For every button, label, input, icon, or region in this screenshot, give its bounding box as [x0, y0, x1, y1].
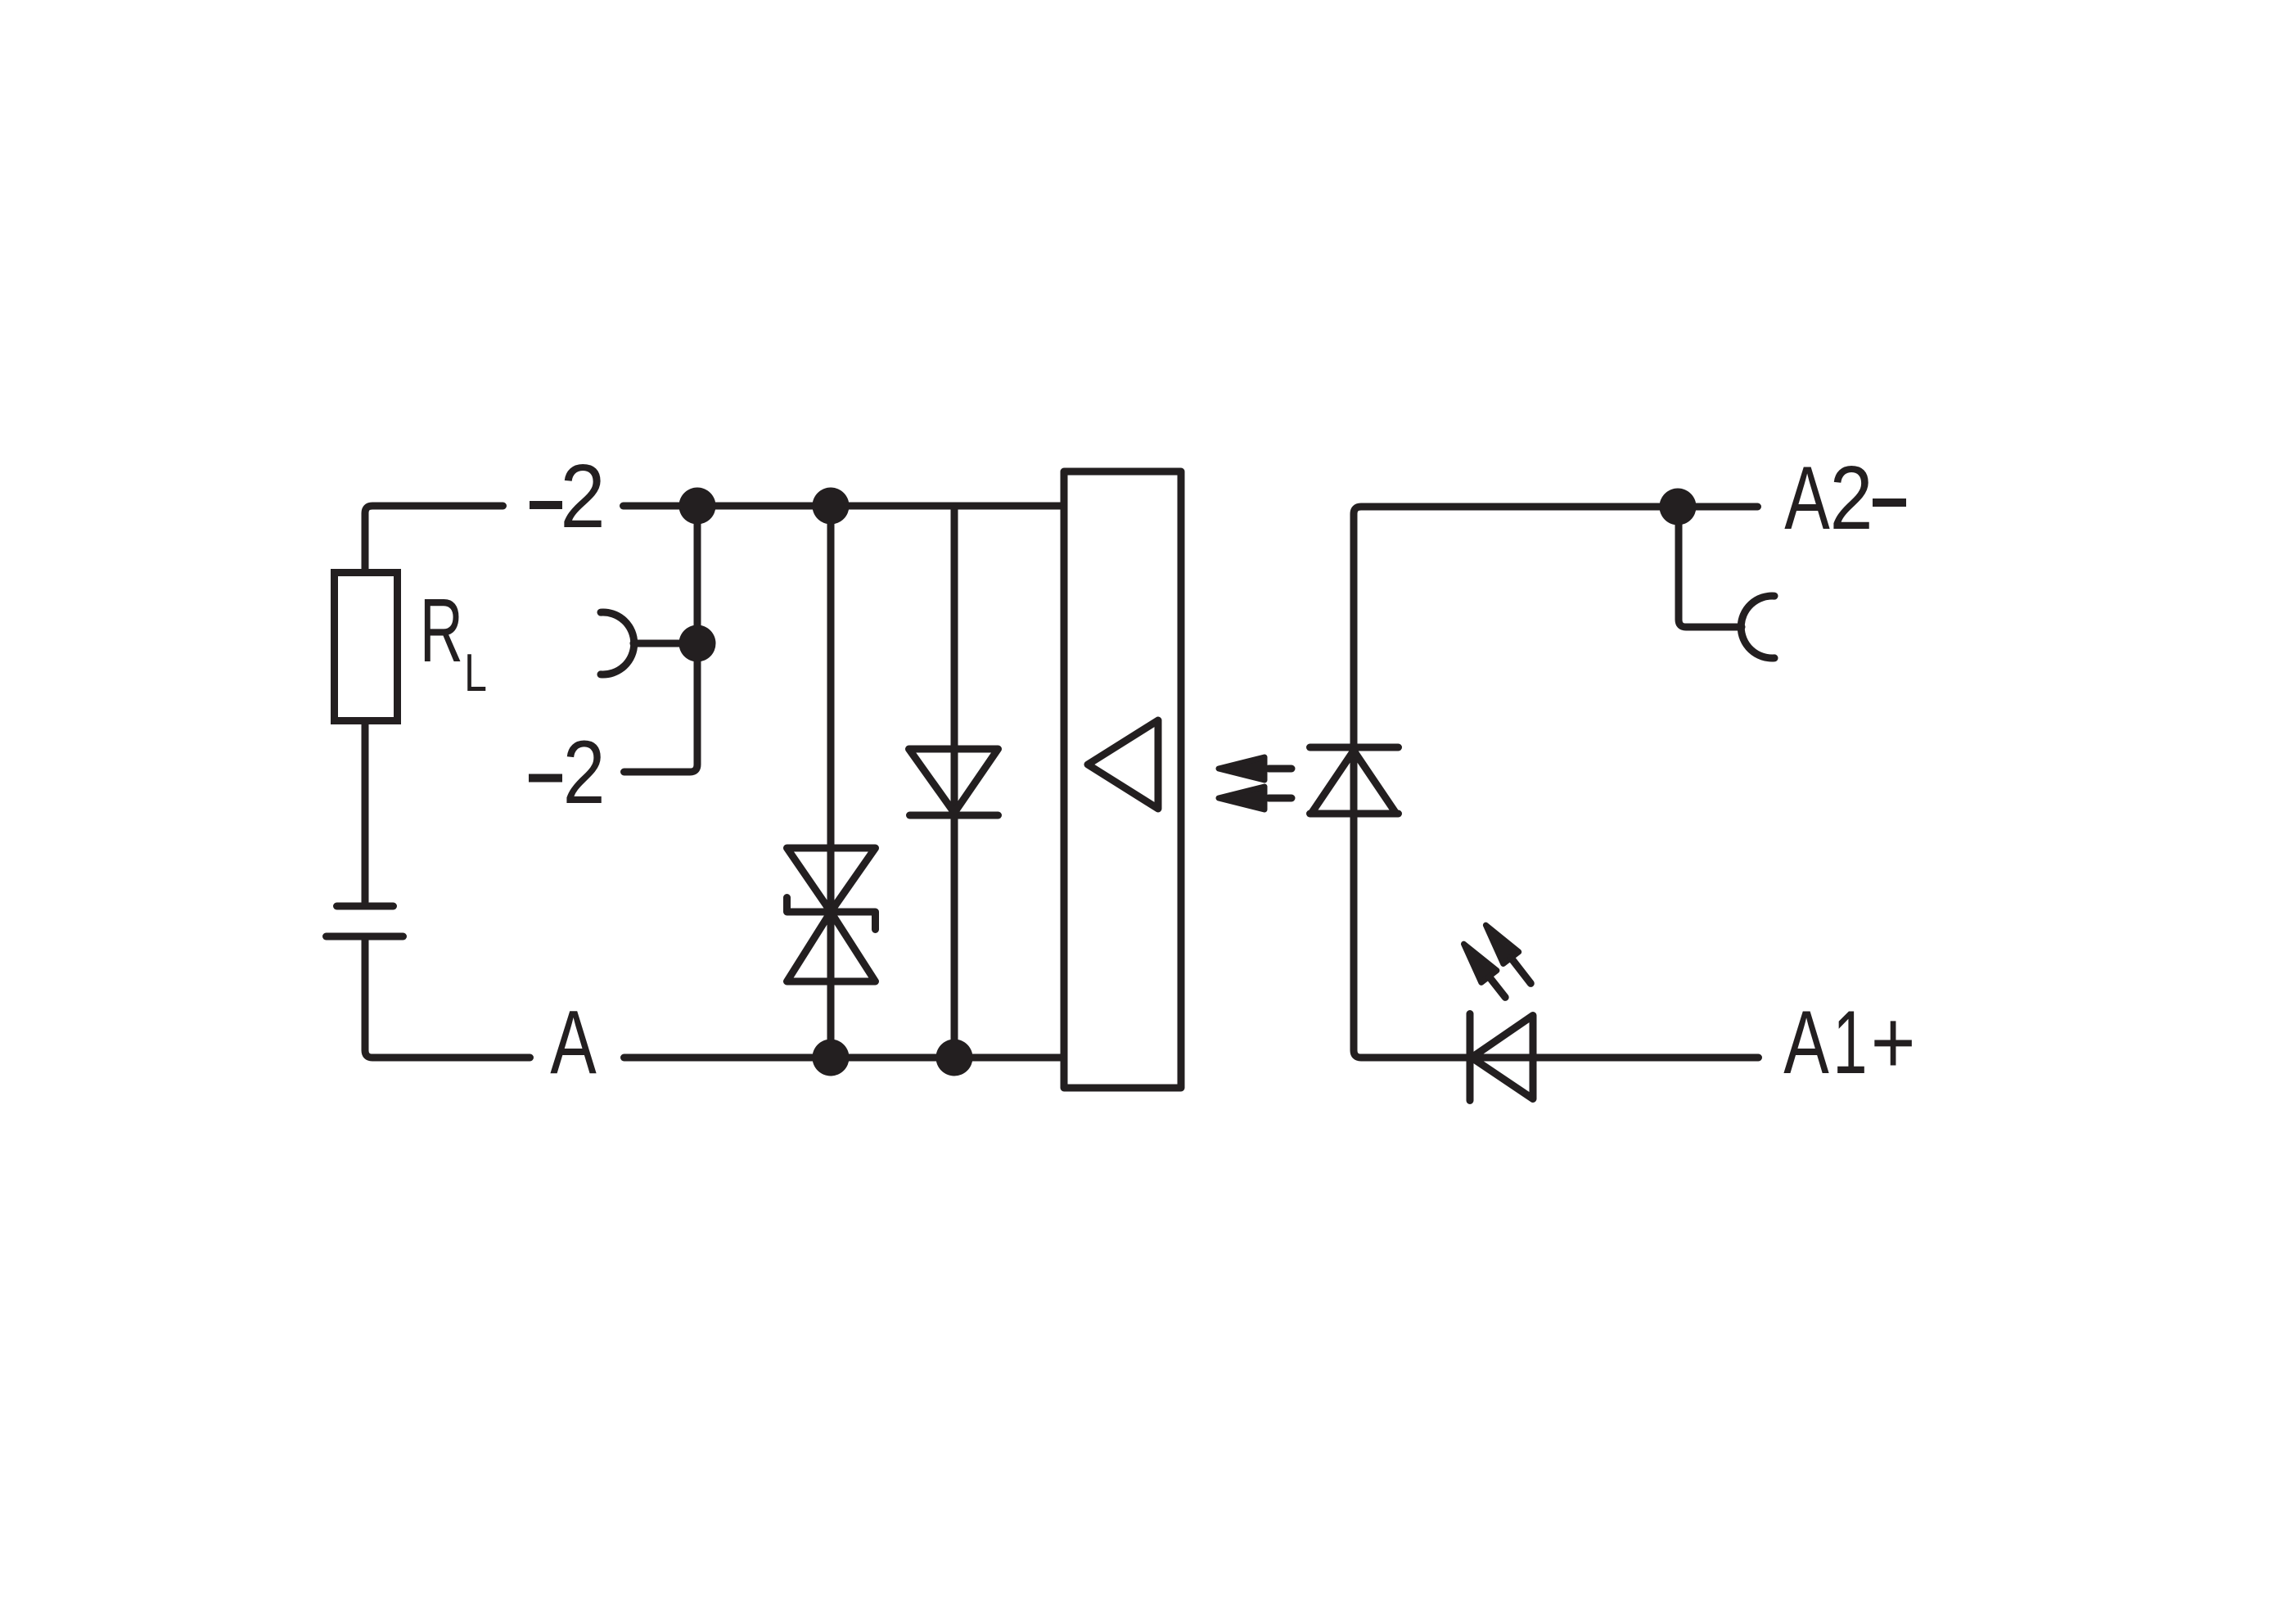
junction node bottom 1 — [813, 1040, 850, 1076]
wire TVS branch vertical — [827, 506, 835, 1058]
suppressor diode (bidirectional TVS) — [787, 848, 876, 981]
svg-text:+: + — [1871, 991, 1916, 1093]
wire top-left segment — [365, 506, 503, 572]
indicator LED — [1470, 1014, 1533, 1101]
LED emission arrow left — [1464, 944, 1506, 997]
svg-text:A: A — [1784, 448, 1830, 548]
clamp contact right — [1741, 596, 1774, 658]
junction node top 2 — [813, 488, 850, 525]
svg-text:L: L — [464, 644, 487, 703]
svg-text:A: A — [1783, 992, 1829, 1093]
junction node bottom 2 — [936, 1040, 973, 1076]
resistor RL — [335, 573, 398, 721]
junction node A2 — [1660, 489, 1697, 526]
wire resistor to battery — [362, 724, 369, 902]
label -2 bottom — [529, 722, 605, 823]
label A2- — [1784, 447, 1906, 548]
optocoupler amplifier triangle — [1088, 720, 1158, 809]
battery — [327, 906, 403, 936]
diode D1 — [909, 749, 999, 815]
svg-text:R: R — [420, 580, 463, 681]
svg-text:2: 2 — [560, 446, 605, 547]
LED emission arrow right — [1485, 925, 1530, 983]
wire stub from socket contact to node — [633, 640, 697, 647]
light arrow into box upper — [1219, 757, 1292, 780]
socket contact left — [601, 612, 634, 674]
svg-text:2: 2 — [563, 722, 606, 823]
label A1+ — [1783, 991, 1915, 1094]
optocoupler box — [1064, 471, 1181, 1088]
wire A2- down-stub to clamp contact — [1679, 507, 1742, 627]
svg-text:2: 2 — [1830, 447, 1873, 548]
junction node top 1 — [679, 488, 716, 525]
svg-text:1: 1 — [1832, 992, 1867, 1093]
light arrow into box lower — [1219, 787, 1292, 810]
label -2 top — [530, 446, 606, 547]
wire right loop (A2- top, A1+ bottom) — [1354, 507, 1759, 1058]
junction node contact — [679, 625, 716, 662]
wire battery to bottom-left corner — [365, 940, 530, 1058]
input LED of optocoupler — [1310, 747, 1399, 814]
wire top bus — [624, 503, 1065, 510]
wire branch x=852 down to -2 stub — [624, 506, 698, 772]
wire diode branch vertical — [951, 506, 958, 1058]
wire bottom bus — [624, 1054, 1065, 1062]
svg-text:A: A — [550, 991, 597, 1092]
